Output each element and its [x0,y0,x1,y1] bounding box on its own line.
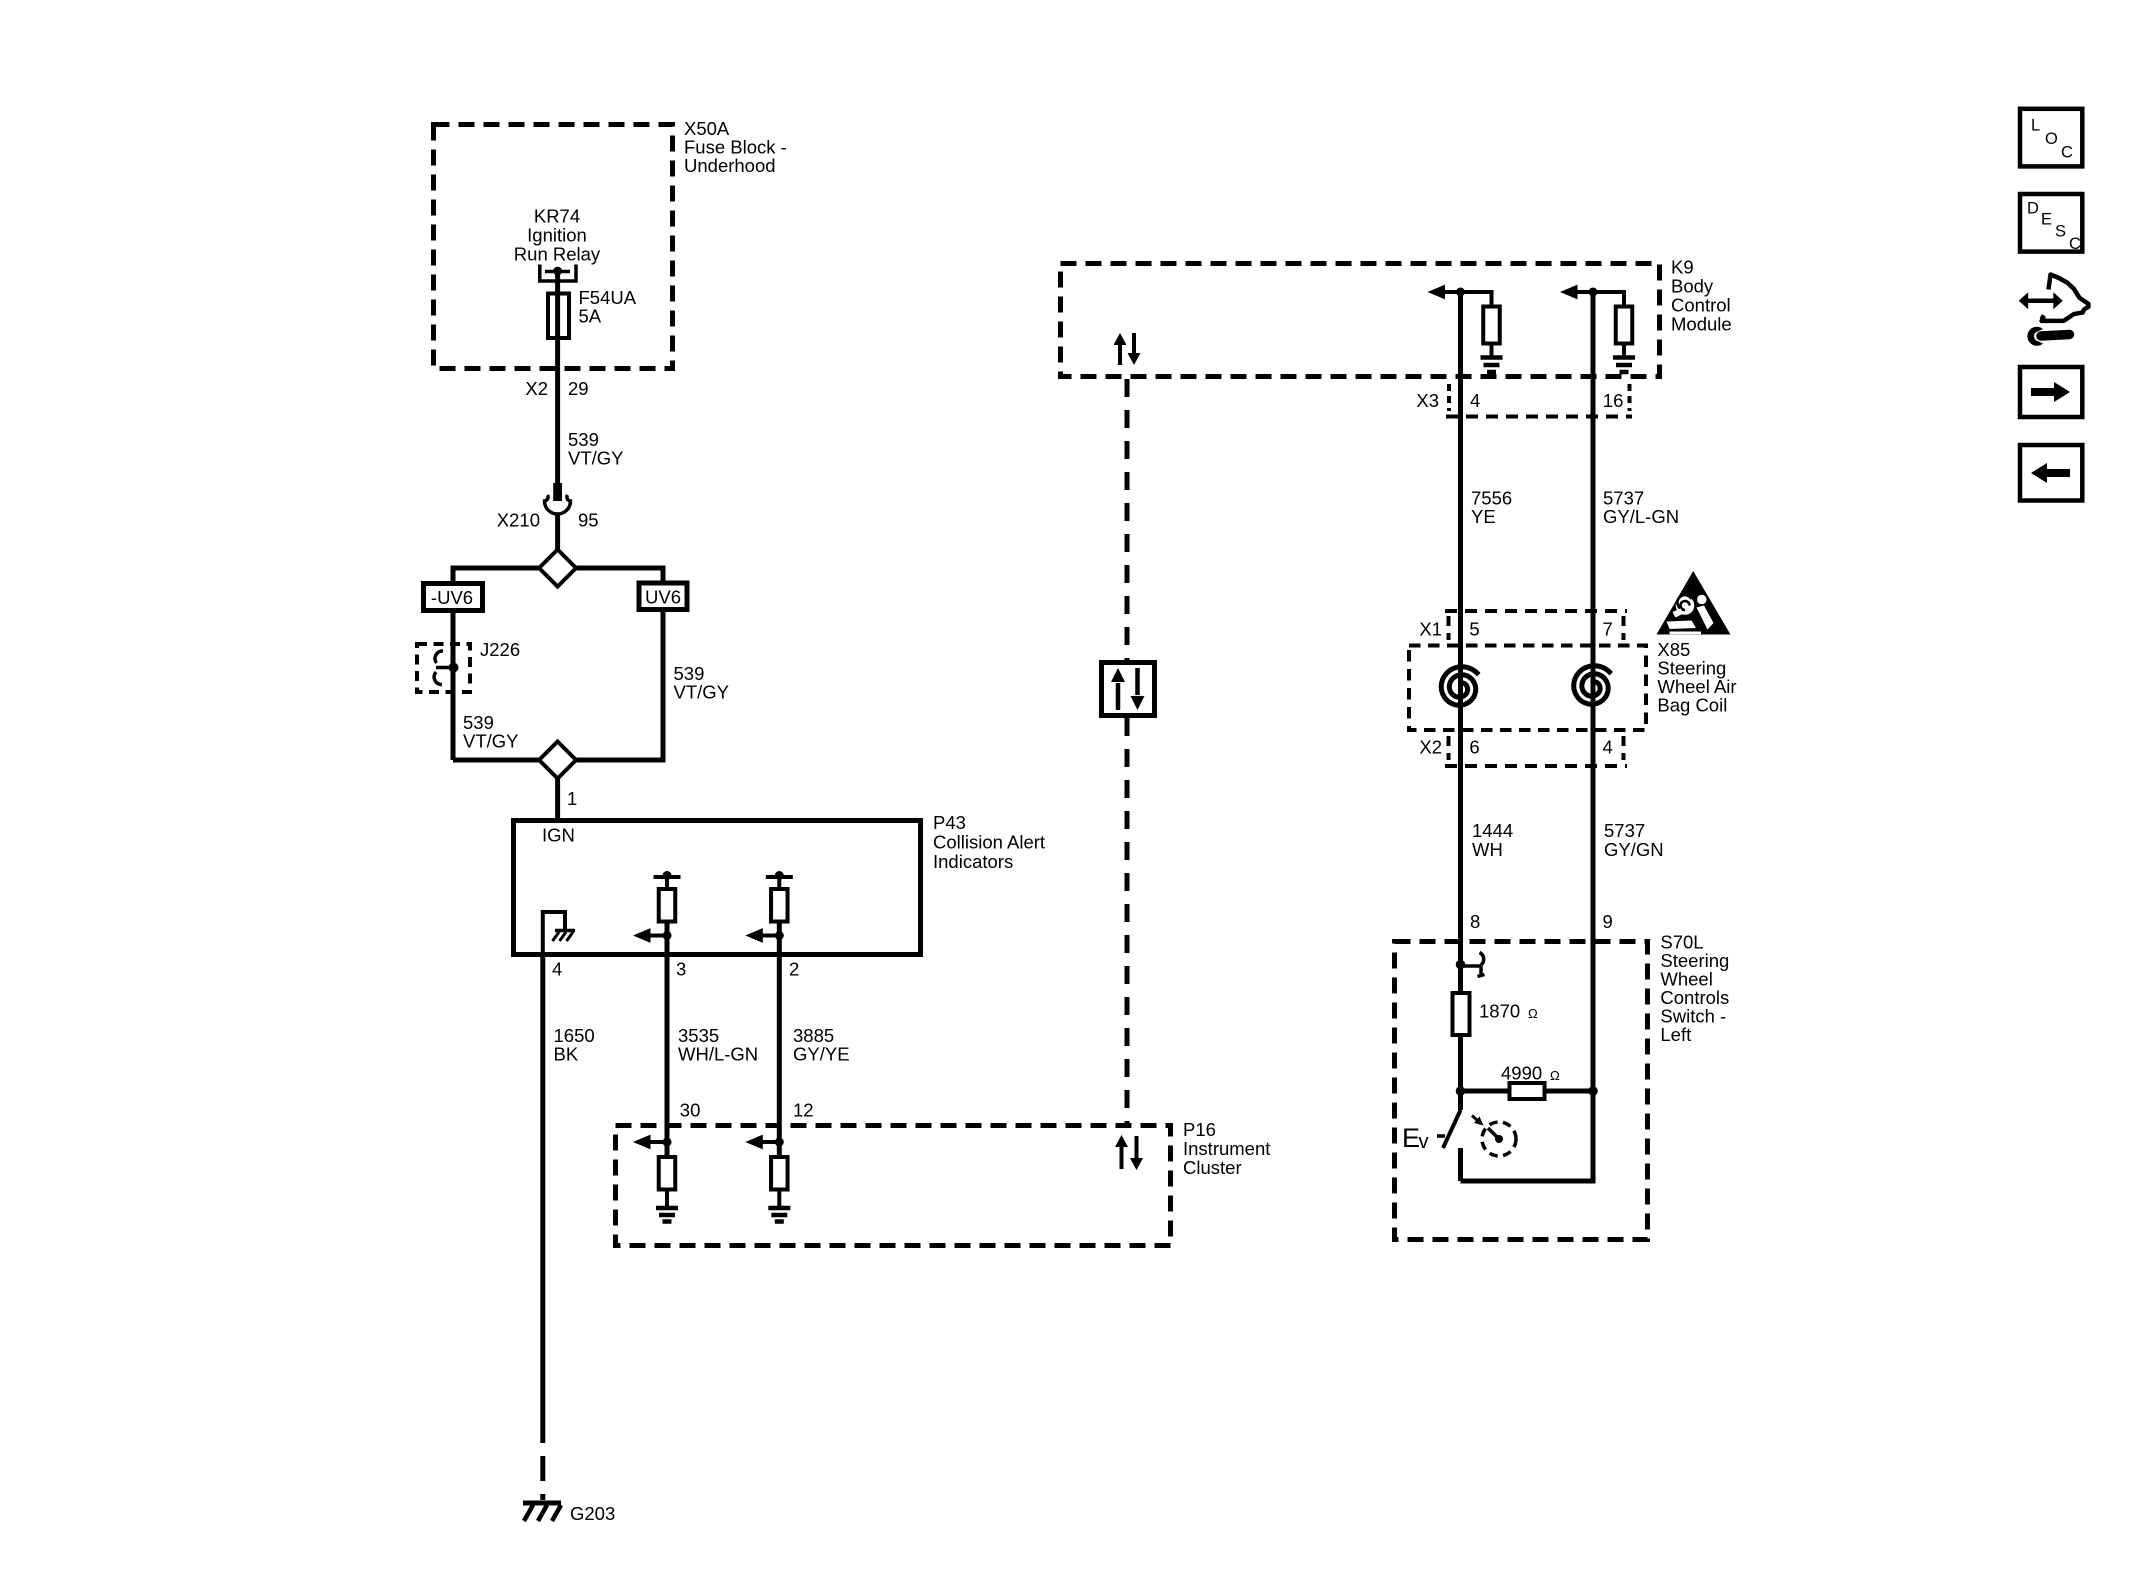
wire serial data (dashed) K9 to symbol box [1125,379,1130,660]
connector X50A Fuse Block - Underhood (dashed box) [434,125,673,369]
icon box DESC [2020,194,2082,253]
svg-text:3: 3 [676,959,686,980]
label P43 Collision Alert Indicators [933,812,1045,872]
svg-text:IGN: IGN [542,825,575,846]
svg-text:X1: X1 [1419,619,1442,640]
air bag coil (left spiral) [1441,667,1479,706]
svg-text:7: 7 [1603,619,1613,640]
wire P43 pin 3 to P16 pin 30 (3535 WH/L-GN) [665,954,670,1125]
svg-text:Ω: Ω [1550,1068,1560,1083]
svg-text:WH: WH [1472,839,1503,860]
svg-text:1444: 1444 [1472,820,1513,841]
wire label 1444 WH [1472,820,1513,860]
svg-text:8: 8 [1470,911,1480,932]
svg-text:E: E [1402,1123,1420,1153]
serial data symbol box [1102,663,1155,716]
svg-text:5737: 5737 [1604,820,1645,841]
svg-text:Control: Control [1671,295,1731,316]
svg-text:P43: P43 [933,812,966,833]
svg-text:J226: J226 [480,639,520,660]
label P16 Instrument Cluster [1183,1119,1270,1178]
svg-text:C: C [2061,144,2073,162]
connector X3 row (dotted) [1446,384,1632,417]
pin labels X3 4 16 [1416,390,1623,411]
svg-text:S: S [2055,223,2066,241]
svg-text:6: 6 [1469,737,1479,758]
wire switch bottom to pin 9 wire [1461,1091,1594,1181]
svg-text:5A: 5A [579,306,602,327]
input branch X3-16 inside K9 (arrow + pull resistor + ground) [1560,285,1635,372]
svg-text:VT/GY: VT/GY [463,731,519,752]
svg-text:-UV6: -UV6 [431,587,473,608]
icon car diagnostics (double arrow + car + wrench) [2019,275,2089,346]
wire label 1650 BK [554,1025,595,1065]
wire X85 X2 pin 4 down to S70L pin 9 (5737 GY/GN) [1591,666,1596,1181]
svg-text:Indicators: Indicators [933,851,1013,872]
wire X85 X2 pin 6 down to S70L pin 8 (1444 WH) [1458,666,1463,941]
icon box back (left arrow) [2020,445,2082,501]
label K9 Body Control Module [1671,257,1732,335]
label 4990 ohm [1501,1063,1560,1084]
icon box LOC [2020,109,2082,167]
svg-text:30: 30 [680,1100,701,1121]
svg-text:UV6: UV6 [645,587,681,608]
wire fuse to connector X210 [555,340,560,483]
pin labels 8 9 [1470,911,1613,932]
ground (chassis) inside P43 [543,912,575,954]
svg-text:95: 95 [578,510,599,531]
label 1870 ohm [1479,1001,1538,1022]
svg-text:O: O [2045,130,2058,148]
svg-text:4: 4 [1603,737,1613,758]
icon box next (right arrow) [2020,367,2082,417]
svg-text:GY/L-GN: GY/L-GN [1603,506,1679,527]
fuse F54UA 5A [548,292,569,341]
node junction left [1456,1086,1466,1096]
splice J226 (dashed box) [417,644,470,692]
indicator driver branch pin 30 inside P16 [633,1125,678,1222]
svg-text:1: 1 [567,788,577,809]
node -UV6 [424,584,483,611]
module P16 Instrument Cluster (dashed box) [616,1126,1171,1246]
wire label 5737 GY/L-GN [1603,488,1679,528]
wire diamond to P43 pin 1 [555,779,560,819]
pin labels X2 6 4 [1419,737,1612,758]
svg-text:4: 4 [1470,390,1480,411]
air bag coil (right spiral) [1574,666,1612,705]
svg-text:Underhood: Underhood [684,155,776,176]
ground G203 [523,1503,561,1521]
actuation arrow [1472,1116,1484,1126]
splice diamond (upper) [539,550,576,587]
svg-text:K9: K9 [1671,257,1694,278]
svg-text:X210: X210 [497,510,540,531]
label F54UA 5A [579,287,637,327]
node junction right [1588,1086,1598,1096]
svg-text:12: 12 [793,1100,814,1121]
wire left branch to lower diamond [453,758,539,763]
svg-text:16: 16 [1603,390,1624,411]
svg-text:GY/YE: GY/YE [793,1044,850,1065]
wire label 539 VT/GY (left branch) [463,712,519,752]
svg-text:29: 29 [568,378,589,399]
resistor 1870 ohm [1453,993,1470,1091]
label X50A Fuse Block - Underhood [684,118,787,176]
node UV6 [639,583,687,610]
module K9 Body Control Module (dashed box) [1061,264,1660,377]
connector X210 inline (male terminal + female cup) [545,483,571,549]
wire label 539 VT/GY [568,429,624,469]
wire label 5737 GY/GN [1604,820,1664,860]
svg-text:KR74: KR74 [534,206,580,227]
module P43 Collision Alert Indicators (solid box) [514,821,921,955]
svg-text:X3: X3 [1416,390,1439,411]
wire K9 X3 pin 4 down to X85 [1458,292,1463,666]
svg-text:Left: Left [1660,1024,1691,1045]
svg-text:X2: X2 [1419,737,1442,758]
wire label 3535 WH/L-GN [678,1025,758,1065]
svg-text:Instrument: Instrument [1183,1138,1270,1159]
input branch X3-4 inside K9 (arrow + pull resistor + ground) [1428,285,1503,372]
svg-text:Run Relay: Run Relay [514,244,601,265]
splice J226 symbol [434,651,458,685]
svg-text:L: L [2031,117,2040,135]
wire P43 pin 4 down (1650 BK) [540,954,545,1418]
svg-text:BK: BK [554,1044,579,1065]
svg-text:Module: Module [1671,314,1732,335]
warning triangle (air bag) [1657,571,1731,635]
wire P43 pin 2 to P16 pin 12 (3885 GY/YE) [777,954,782,1125]
label Ev (switch function) [1402,1123,1445,1153]
wire label 3885 GY/YE [793,1025,850,1065]
pin labels 30 12 [680,1100,814,1121]
resistor 4990 ohm (horizontal) [1461,1083,1594,1099]
svg-text:2: 2 [789,959,799,980]
wire UV6 down to lower diamond [576,610,663,761]
connector X1 row (dotted) [1445,611,1627,640]
svg-text:P16: P16 [1183,1119,1216,1140]
switch module S70L Steering Wheel Controls Switch - Left (dashed box) [1395,942,1648,1240]
wire diamond to UV6 [576,568,663,581]
svg-text:GY/GN: GY/GN [1604,839,1664,860]
relay KR74 contact symbol [540,265,576,292]
svg-text:Body: Body [1671,276,1714,297]
svg-text:G203: G203 [570,1503,615,1524]
svg-text:5: 5 [1469,619,1479,640]
splice diamond (lower) [539,742,576,779]
label KR74 Ignition Run Relay [514,206,601,265]
serial data arrows inside P16 [1115,1135,1143,1170]
indicator driver branch pin 12 inside P16 [745,1125,790,1222]
svg-text:X2: X2 [525,378,548,399]
svg-text:v: v [1419,1131,1429,1153]
wire -UV6 down through J226 [451,611,456,761]
svg-text:4990: 4990 [1501,1063,1542,1084]
svg-text:VT/GY: VT/GY [674,682,730,703]
svg-text:Collision Alert: Collision Alert [933,832,1045,853]
indicator lamp branch pin 2 inside P43 [745,871,793,954]
pin labels X1 5 7 [1419,619,1612,640]
svg-text:Bag Coil: Bag Coil [1657,695,1727,716]
wire label 7556 YE [1471,488,1512,528]
pin label X2 | 29 [525,378,588,399]
svg-text:Ω: Ω [1528,1006,1538,1021]
svg-text:D: D [2027,200,2039,218]
wire pin 8 into S70L [1458,941,1463,993]
serial data arrows inside K9 [1114,333,1141,365]
svg-text:C: C [2069,235,2081,253]
pin label X210 | 95 [497,510,599,531]
label S70L Steering Wheel Controls Switch - Left [1660,932,1729,1046]
svg-text:WH/L-GN: WH/L-GN [678,1044,758,1065]
wire label 539 VT/GY (right branch) [674,663,730,703]
switch blade (cruise set/resume switch) [1443,1091,1461,1181]
serial data arrows inside symbol box [1111,668,1145,710]
svg-text:1870: 1870 [1479,1001,1520,1022]
indicator lamp branch pin 3 inside P43 [633,871,681,954]
wire K9 X3 pin 16 down to X85 [1591,292,1596,666]
svg-text:9: 9 [1603,911,1613,932]
connector X2 row (dotted) [1445,736,1627,766]
label X85 Steering Wheel Air Bag Coil [1657,639,1736,716]
svg-text:4: 4 [552,959,562,980]
cruise control icon (gauge) [1482,1122,1516,1156]
terminal clip symbol on pin-8 wire [1456,953,1485,977]
svg-text:E: E [2041,211,2052,229]
svg-text:VT/GY: VT/GY [568,448,624,469]
svg-text:YE: YE [1471,506,1496,527]
wire serial data (dashed) symbol box to P16 [1125,718,1130,1125]
connector X85 Steering Wheel Air Bag Coil (dashed box) [1409,646,1646,731]
svg-text:Ignition: Ignition [527,225,587,246]
pin labels 4 3 2 [552,959,799,980]
svg-text:Cluster: Cluster [1183,1157,1242,1178]
wire diamond to -UV6 [453,568,539,581]
